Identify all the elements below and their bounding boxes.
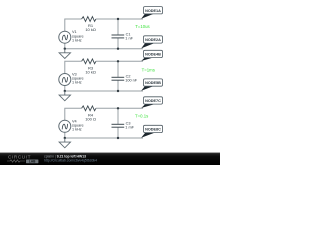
svg-text:T=10us: T=10us (135, 24, 149, 29)
svg-text:100 Ω: 100 Ω (85, 116, 96, 121)
capacitor C1 (112, 32, 134, 40)
wire: capacitor C1 branch vertical (117, 19, 119, 49)
node flag NODE5B (141, 79, 162, 91)
junction: C2 bottom rail (117, 90, 119, 92)
junction: R4/C3/NODE7C (117, 107, 119, 109)
voltage source V1 (59, 30, 84, 43)
svg-text:T=0.1s: T=0.1s (135, 114, 148, 119)
wire: capacitor C3 branch vertical (117, 108, 119, 138)
svg-text:NODE2A: NODE2A (145, 38, 161, 42)
junction: V3- bottom rail (64, 90, 66, 92)
wire: bottom rail of circuit B (65, 86, 143, 92)
svg-text:10 kΩ: 10 kΩ (85, 27, 96, 32)
svg-text:CIRCUIT: CIRCUIT (8, 155, 31, 160)
CircuitLab logo: LAB badge (26, 160, 38, 164)
wire: R1 right to NODE1A flag (96, 18, 143, 20)
CircuitLab logo: resistor squiggle (7, 160, 25, 162)
svg-text:NODE1A: NODE1A (145, 9, 161, 13)
resistor R3 (82, 59, 96, 75)
wire: bottom rail of circuit C (65, 132, 143, 138)
node flag NODE1A (141, 7, 162, 19)
wire: V4 top to R4 (65, 108, 82, 120)
voltage source V3 (59, 73, 84, 86)
svg-text:10 kΩ: 10 kΩ (85, 69, 96, 74)
junction: C3 bottom rail (117, 137, 119, 139)
svg-text:NODE5B: NODE5B (145, 81, 161, 85)
capacitor C2 (112, 75, 138, 83)
junction: R3/C2/NODE4B (117, 60, 119, 62)
resistor R1 (82, 17, 96, 32)
wire: bottom rail of circuit A (65, 43, 143, 49)
svg-text:1 kHz: 1 kHz (72, 38, 82, 42)
junction: R1/C1/NODE1A (117, 18, 119, 20)
junction: V4- bottom rail (64, 137, 66, 139)
ground B (59, 91, 70, 101)
junction: V1- bottom rail (64, 48, 66, 50)
wire: V1 top to R1 (node V1+) (65, 19, 82, 31)
svg-text:http://circuitlab.com/c6vv4q5t: http://circuitlab.com/c6vv4q5tb2dk4 (44, 158, 97, 162)
svg-text:LAB: LAB (29, 159, 36, 163)
voltage source V4 (59, 119, 84, 132)
svg-text:NODE8C: NODE8C (145, 128, 161, 132)
wire: R4 right to NODE7C flag (96, 107, 143, 109)
junction: C1 bottom rail (117, 48, 119, 50)
ground C (59, 138, 70, 148)
resistor R4 (82, 106, 96, 122)
ground A (59, 49, 70, 59)
svg-text:100 nF: 100 nF (125, 79, 138, 83)
svg-text:1 nF: 1 nF (125, 36, 133, 40)
wire: V3 top to R3 (65, 61, 82, 73)
svg-text:1 kHz: 1 kHz (72, 127, 82, 131)
svg-text:T=1ms: T=1ms (142, 68, 155, 73)
wire: R3 right to NODE4B flag (96, 60, 143, 62)
svg-text:1 kHz: 1 kHz (72, 81, 82, 85)
svg-text:NODE4B: NODE4B (145, 53, 161, 57)
node flag NODE8C (141, 125, 162, 137)
wire: capacitor C2 branch vertical (117, 61, 119, 91)
node flag NODE7C (141, 97, 162, 108)
svg-text:NODE7C: NODE7C (145, 99, 161, 103)
capacitor C3 (112, 122, 135, 130)
node flag NODE2A (141, 36, 162, 49)
node flag NODE4B (141, 50, 162, 61)
svg-text:1 mF: 1 mF (125, 126, 134, 130)
